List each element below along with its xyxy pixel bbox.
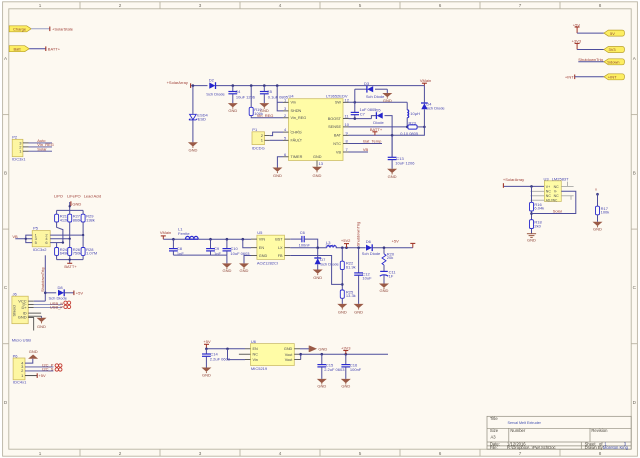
svg-text:GND: GND — [72, 201, 81, 206]
port +SolarArray — [167, 80, 191, 88]
svg-text:VMain: VMain — [160, 230, 171, 235]
svg-text:GND: GND — [341, 384, 350, 389]
wire EN branch — [243, 239, 251, 248]
wire top rail — [191, 85, 207, 87]
svg-text:7: 7 — [519, 3, 522, 8]
svg-text:VB: VB — [336, 150, 342, 154]
svg-text:TIMER: TIMER — [291, 155, 303, 159]
svg-text:Vin: Vin — [291, 101, 296, 105]
capacitor C7 — [351, 107, 377, 119]
svg-text:Sch Diode: Sch Diode — [49, 296, 68, 301]
flag 3V3 — [604, 47, 625, 53]
wire P6 pin4 to gnd — [25, 359, 33, 363]
wire to Vin/SHDN pins — [277, 86, 283, 111]
wire TIMER to gnd — [277, 157, 283, 168]
svg-text:BATT+: BATT+ — [64, 264, 77, 269]
port +SolarState — [50, 27, 74, 32]
svg-text:CHRG: CHRG — [291, 130, 302, 134]
svg-text:P2: P2 — [12, 135, 18, 140]
resistor R17 pulldown — [595, 186, 609, 221]
resistor R27 — [68, 214, 82, 223]
svg-text:LiFePO: LiFePO — [67, 194, 81, 199]
svg-text:C6: C6 — [300, 230, 306, 235]
svg-text:+5V: +5V — [392, 239, 400, 244]
svg-text:GND: GND — [313, 275, 322, 280]
connector J6 micro usb — [11, 292, 31, 343]
wire 3V3 rail — [301, 353, 388, 355]
wire LX out rail — [336, 247, 366, 249]
svg-text:Drawn By:: Drawn By: — [585, 445, 604, 450]
net ShutdownTrig flag — [578, 57, 604, 62]
wire EN-Vin tie — [228, 349, 246, 360]
svg-text:+3V3: +3V3 — [341, 345, 351, 350]
ground R17 — [593, 222, 603, 232]
svg-text:GND: GND — [317, 384, 326, 389]
svg-text:SHDN: SHDN — [291, 109, 302, 113]
svg-text:Vin: Vin — [253, 358, 258, 362]
net VB pin7 — [349, 147, 369, 152]
svg-text:Shield: Shield — [11, 305, 16, 316]
wire BST to C6 — [290, 238, 301, 240]
port +3V3 flag — [572, 39, 582, 50]
wire LX — [290, 247, 326, 249]
svg-text:Moreton King: Moreton King — [603, 445, 629, 450]
wire +5V to EN — [206, 348, 245, 350]
port +5V flag — [573, 22, 581, 33]
svg-text:100k: 100k — [601, 210, 610, 215]
flag Charge — [9, 26, 31, 32]
esd diode D1 — [189, 113, 209, 122]
svg-text:BATT+: BATT+ — [48, 46, 61, 51]
diode D3 — [355, 81, 388, 99]
node R19 — [250, 84, 253, 87]
diode D7 freewheel — [314, 248, 339, 270]
svg-text:FB: FB — [278, 254, 283, 258]
svg-text:R:\Dropbox\..\Pwr.SchDoc: R:\Dropbox\..\Pwr.SchDoc — [507, 445, 556, 450]
capacitor C10 — [223, 239, 251, 256]
svg-text:C7: C7 — [360, 112, 366, 117]
svg-text:5V: 5V — [610, 31, 615, 36]
svg-text:GND: GND — [188, 148, 197, 153]
svg-text:6: 6 — [439, 451, 442, 456]
capacitor C12 — [354, 248, 372, 304]
port +3V3 ldo — [341, 345, 351, 354]
svg-text:Vin_REG: Vin_REG — [257, 113, 274, 118]
svg-text:1: 1 — [39, 3, 42, 8]
IC U5 AOZ1282CI — [251, 230, 290, 265]
svg-text:EN: EN — [259, 246, 265, 250]
resistor R26 — [68, 239, 82, 256]
svg-text:Sdown: Sdown — [607, 60, 619, 65]
capacitor C14 — [202, 349, 231, 368]
resistor R23 sense — [400, 120, 424, 135]
svg-text:NTC: NTC — [333, 142, 341, 146]
svg-text:649k: 649k — [60, 251, 69, 256]
svg-text:BOOST: BOOST — [328, 117, 342, 121]
svg-text:Solar: Solar — [37, 146, 47, 151]
svg-text:5: 5 — [359, 3, 362, 8]
svg-text:+SolarState: +SolarState — [52, 27, 74, 32]
svg-text:12: 12 — [345, 97, 350, 102]
port +5V buck out — [392, 239, 416, 248]
svg-text:ShutdownTrig: ShutdownTrig — [578, 57, 603, 62]
capacitor C4 — [228, 86, 255, 104]
svg-text:B: B — [4, 171, 7, 176]
wire D+ — [34, 304, 64, 309]
svg-text:GND: GND — [318, 346, 327, 351]
wire to ESD diode — [192, 86, 194, 114]
svg-text:GND: GND — [37, 324, 46, 329]
ground C12 — [354, 304, 364, 315]
svg-text:Micro USB: Micro USB — [12, 337, 31, 342]
svg-text:I2C_S: I2C_S — [42, 366, 53, 371]
svg-text:GND: GND — [354, 309, 363, 314]
svg-text:P1: P1 — [252, 127, 258, 132]
svg-text:+SolarArray: +SolarArray — [503, 177, 524, 182]
wire BOOST — [349, 118, 372, 120]
svg-text:VB: VB — [363, 147, 369, 152]
svg-text:138k: 138k — [86, 217, 95, 222]
flag 5V — [604, 30, 625, 36]
IC U3 LM2583T — [531, 176, 574, 202]
svg-text:V+: V+ — [546, 185, 550, 189]
resistor R24 — [55, 243, 69, 256]
svg-text:AOZ1282CI: AOZ1282CI — [257, 261, 278, 266]
svg-text:3: 3 — [199, 3, 202, 8]
resistor R21 — [55, 214, 69, 223]
wire GND usb — [41, 316, 43, 318]
ground C14 — [201, 368, 211, 378]
svg-text:USB_P: USB_P — [50, 304, 63, 309]
svg-text:8: 8 — [599, 3, 602, 8]
svg-text:GND: GND — [259, 254, 268, 258]
svg-text:D8: D8 — [58, 285, 64, 290]
svg-text:Vin_REG: Vin_REG — [291, 116, 307, 120]
capacitor C9 — [206, 239, 221, 256]
wire BAT net — [349, 127, 425, 135]
ground R18 earth style — [527, 234, 536, 238]
wire R19 to Vin_REG pin — [251, 116, 283, 118]
wire P6 pin3 — [25, 362, 54, 367]
svg-text:GND: GND — [260, 108, 269, 113]
svg-text:FAULT: FAULT — [291, 139, 303, 143]
wire solar to U3 — [504, 185, 544, 187]
svg-text:LiPO: LiPO — [54, 194, 63, 199]
svg-text:+INT: +INT — [608, 75, 617, 80]
svg-text:Size: Size — [490, 428, 499, 433]
svg-text:U4: U4 — [289, 94, 295, 99]
svg-text:13.3k: 13.3k — [346, 293, 356, 298]
capacitor C6 — [299, 230, 318, 248]
svg-text:GND: GND — [380, 288, 389, 293]
svg-text:Batt: Batt — [14, 46, 22, 51]
svg-text:VMain: VMain — [420, 78, 431, 83]
ground U5 — [239, 263, 249, 273]
svg-text:D+: D+ — [21, 305, 27, 310]
svg-text:3V3: 3V3 — [609, 47, 617, 52]
connector P6 IDC4x1 — [13, 353, 28, 384]
svg-text:P6: P6 — [13, 353, 19, 358]
svg-text:100nF: 100nF — [299, 243, 311, 248]
capacitor C13 — [388, 156, 416, 169]
flag Sdown — [604, 59, 625, 65]
wire Charge to port — [31, 28, 49, 30]
wire P1 pin2 to CHRG — [270, 132, 283, 136]
svg-text:IDC3x2: IDC3x2 — [33, 247, 47, 252]
svg-text:2: 2 — [119, 451, 122, 456]
wire P6 pin1 — [25, 373, 46, 378]
gnd power port right — [300, 346, 327, 352]
wire P1 pin1 to FAULT — [270, 139, 283, 141]
diode D2 — [206, 77, 225, 96]
net tie pin2 — [55, 368, 62, 371]
svg-text:NC: NC — [546, 190, 552, 194]
svg-text:6: 6 — [439, 3, 442, 8]
wire V- to Solar node — [532, 191, 576, 213]
wire to flag 3V3 — [577, 49, 604, 51]
port BATT+ — [46, 46, 61, 51]
svg-text:+5V: +5V — [76, 291, 84, 296]
svg-text:7: 7 — [519, 451, 522, 456]
node C5 — [263, 84, 266, 87]
wire VCC up — [34, 300, 46, 302]
svg-text:ESD: ESD — [198, 117, 206, 122]
wire VMain rail — [163, 238, 251, 240]
title block — [487, 416, 631, 449]
svg-text:+3V3: +3V3 — [572, 39, 582, 44]
svg-text:VIN: VIN — [259, 238, 266, 242]
wire bottom rail caps — [173, 254, 227, 256]
wire bottom rail divider — [57, 255, 84, 263]
svg-text:GND: GND — [202, 372, 211, 377]
svg-text:P5: P5 — [33, 226, 39, 231]
port VMain mid — [160, 230, 171, 239]
connector P1 IDCDG — [252, 127, 270, 151]
svg-text:LX: LX — [278, 246, 283, 250]
wire D- — [34, 301, 64, 306]
svg-text:+5V2: +5V2 — [341, 238, 351, 243]
svg-text:VB: VB — [12, 234, 18, 239]
svg-text:GND: GND — [284, 347, 293, 351]
net tie D+ — [64, 305, 71, 308]
svg-text:10μH: 10μH — [410, 111, 420, 116]
diode D6 — [362, 239, 413, 256]
svg-text:3: 3 — [199, 451, 202, 456]
ground caps — [222, 263, 232, 273]
svg-text:GND: GND — [240, 268, 249, 273]
wire FB — [290, 256, 342, 285]
svg-text:GND: GND — [383, 98, 392, 103]
capacitor C16 — [341, 354, 361, 379]
svg-text:+INT: +INT — [565, 74, 574, 79]
svg-text:Number: Number — [510, 428, 525, 433]
net tie D- — [64, 301, 71, 304]
svg-text:866k: 866k — [73, 217, 82, 222]
diode D5 — [373, 107, 392, 157]
svg-text:NC: NC — [554, 185, 560, 189]
svg-text:2.2uF 0603: 2.2uF 0603 — [324, 367, 345, 372]
svg-text:GND: GND — [313, 155, 322, 159]
IC U6 MIC5219 — [239, 339, 301, 371]
svg-text:Sch Diode: Sch Diode — [206, 91, 225, 96]
wire net Auto — [29, 138, 53, 143]
svg-text:C4: C4 — [235, 89, 241, 94]
svg-text:SW: SW — [335, 101, 342, 105]
svg-text:EN: EN — [253, 347, 259, 351]
wire Vout join — [300, 354, 302, 359]
ground TIMER — [272, 168, 282, 178]
inductor L1 ferrite — [178, 226, 198, 239]
svg-text:+SolarArray: +SolarArray — [167, 80, 188, 85]
wire net Vin_REG — [29, 142, 54, 147]
svg-text:GND: GND — [273, 173, 282, 178]
svg-text:13: 13 — [319, 161, 324, 166]
svg-text:ShutdownTrig: ShutdownTrig — [40, 267, 45, 292]
resistor R28 — [81, 235, 97, 256]
ground P6 top — [28, 349, 38, 359]
diode D8 — [45, 285, 73, 301]
svg-text:D2: D2 — [209, 77, 215, 82]
ground C13 — [387, 169, 397, 179]
svg-text:GND: GND — [222, 268, 231, 273]
capacitor C5 — [260, 86, 289, 104]
resistor R22 — [340, 248, 355, 290]
svg-text:412k: 412k — [60, 217, 69, 222]
wire R29 to row1 — [82, 222, 84, 235]
ground R25 — [337, 304, 347, 315]
svg-text:Solar: Solar — [553, 208, 563, 213]
wire net Solar — [29, 146, 53, 151]
svg-text:MIC5219: MIC5219 — [251, 366, 268, 371]
wire Batt to port — [29, 48, 45, 50]
svg-text:NC: NC — [253, 353, 259, 357]
svg-text:8: 8 — [599, 451, 602, 456]
wire R27 to row2 — [69, 222, 71, 239]
resistor R25 — [340, 289, 355, 304]
op IC U4 LT3652 — [283, 94, 350, 167]
svg-text:100nF: 100nF — [350, 367, 362, 372]
wire SW net — [349, 101, 408, 103]
svg-text:ShutdownTrig: ShutdownTrig — [355, 222, 360, 247]
U4 pin numbers — [284, 97, 350, 166]
wire SENSE — [349, 126, 408, 128]
svg-text:Diode: Diode — [373, 120, 384, 125]
svg-text:1F: 1F — [389, 273, 394, 278]
svg-text:BAT: BAT — [334, 134, 342, 138]
svg-text:IDCDG: IDCDG — [252, 145, 265, 150]
port +5V ldo — [203, 339, 211, 349]
ground J6 — [37, 318, 47, 329]
ground C15 — [317, 379, 327, 389]
P5 right row3 — [50, 242, 63, 244]
svg-text:GND: GND — [29, 349, 38, 354]
svg-text:U5: U5 — [257, 230, 263, 235]
ground C5 — [259, 103, 269, 113]
svg-text:B: B — [633, 171, 636, 176]
svg-text:D6: D6 — [366, 239, 372, 244]
svg-text:Sch Diode: Sch Diode — [320, 262, 339, 267]
svg-text:6.04k: 6.04k — [534, 206, 544, 211]
flag Batt — [9, 46, 29, 52]
svg-text:750k: 750k — [73, 251, 82, 256]
port +INT flag — [565, 74, 604, 79]
ground D7 — [313, 270, 323, 281]
svg-text:GND: GND — [338, 309, 347, 314]
svg-text:10uF 1206: 10uF 1206 — [395, 160, 415, 165]
svg-text:20k: 20k — [387, 255, 393, 260]
ground C16 — [341, 379, 351, 389]
inductor L3 — [325, 240, 336, 248]
svg-text:4: 4 — [279, 3, 282, 8]
svg-text:Lead Acid: Lead Acid — [84, 194, 102, 199]
wire R21 jog to row3 — [57, 222, 63, 243]
svg-text:2: 2 — [119, 3, 122, 8]
wire VMain down to D4 — [423, 86, 425, 103]
U4 pin stubs left — [283, 102, 349, 167]
P5 left pins to VB — [15, 235, 32, 243]
ground C11 — [379, 284, 389, 293]
svg-text:GND: GND — [18, 314, 27, 319]
resistor R16 — [530, 186, 545, 219]
node solar input — [192, 84, 195, 87]
labels chemistry — [54, 194, 101, 199]
svg-text:5: 5 — [359, 451, 362, 456]
net Bat_Temp — [349, 139, 383, 144]
svg-text:GND: GND — [593, 226, 602, 231]
connector P2 IDC3x1 — [12, 135, 26, 162]
svg-text:Charge: Charge — [13, 26, 27, 31]
svg-text:2k0: 2k0 — [534, 224, 541, 229]
inductor L2 — [407, 102, 420, 127]
wire P6 pin2 — [25, 366, 54, 371]
svg-text:10uF: 10uF — [362, 276, 372, 281]
svg-text:1.07M: 1.07M — [86, 251, 97, 256]
svg-text:Serval Melt Extruder: Serval Melt Extruder — [508, 421, 542, 425]
wire to flag 5V — [577, 32, 604, 34]
resistor R19 — [249, 107, 263, 116]
svg-text:10uF 1206: 10uF 1206 — [236, 94, 256, 99]
diode D4 — [421, 101, 445, 127]
wire esd to gnd — [192, 121, 194, 143]
port +SolarArray right — [503, 177, 524, 188]
port +5V usb — [74, 291, 83, 296]
svg-text:4: 4 — [279, 451, 282, 456]
svg-text:GND: GND — [313, 173, 322, 178]
svg-text:Vout: Vout — [285, 353, 294, 357]
svg-text:BST: BST — [275, 238, 283, 242]
svg-text:Revision: Revision — [591, 428, 608, 433]
svg-text:SENSE: SENSE — [328, 125, 341, 129]
svg-text:61.9k: 61.9k — [346, 264, 356, 269]
node Vin branch — [276, 84, 279, 87]
svg-text:Bat_Temp: Bat_Temp — [363, 139, 382, 144]
supercap C11 — [380, 269, 397, 283]
ground C4 — [228, 103, 238, 113]
capacitor C8 — [169, 239, 184, 256]
svg-text:Sch Diode: Sch Diode — [426, 106, 445, 111]
node C4 — [232, 84, 235, 87]
svg-text:1: 1 — [39, 451, 42, 456]
capacitor C15 — [317, 354, 345, 379]
port BATT+ bottom — [64, 263, 77, 269]
ground U4 — [312, 167, 322, 178]
P5 right row1 — [50, 234, 83, 236]
P5 right row2 — [50, 238, 69, 240]
svg-text:Title: Title — [490, 416, 498, 421]
svg-text:Sch Diode: Sch Diode — [362, 251, 381, 256]
flag +INT — [604, 74, 625, 80]
port BATT+ — [370, 127, 383, 135]
